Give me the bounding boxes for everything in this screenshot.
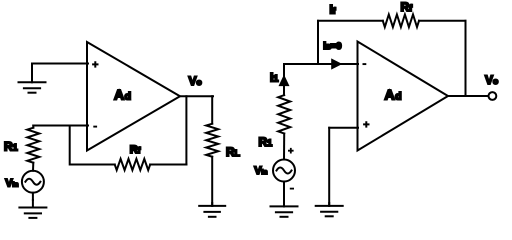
wire: top feedback left segment xyxy=(318,20,383,22)
wire: Rf right lead xyxy=(150,164,186,166)
svg-text:I1: I1 xyxy=(270,71,278,85)
wire: U1 output to RL top xyxy=(180,95,213,97)
wire: R1 top lead xyxy=(32,126,34,128)
wire: Vin bottom to ground G4 xyxy=(283,182,285,207)
svg-text:0: 0 xyxy=(336,41,341,52)
op-amp U2 Ad (right) xyxy=(358,42,449,151)
current arrow IB (points right) xyxy=(331,58,342,69)
svg-text:RL: RL xyxy=(226,145,240,159)
current arrow I1 (points up) xyxy=(279,75,290,87)
wire: top feedback right segment xyxy=(419,20,466,22)
resistor R1 (left) xyxy=(27,128,39,163)
source Vin (right, AC) xyxy=(273,160,295,182)
source Vin (left, AC) xyxy=(22,171,44,193)
svg-text:Vin: Vin xyxy=(5,177,18,189)
svg-text:Vin: Vin xyxy=(254,165,267,177)
wire: input node down to R1 xyxy=(283,64,285,95)
wire: feedback left riser xyxy=(317,21,319,64)
wire: feedback right riser to output node xyxy=(465,21,467,96)
svg-text:R1: R1 xyxy=(4,140,18,154)
wire: RL top lead xyxy=(211,96,213,124)
wire: R1 bottom to Vin (right) xyxy=(283,134,285,160)
wire: inverting input wire xyxy=(284,63,358,65)
ground G4 under Vin (right) xyxy=(271,203,298,217)
resistor RL xyxy=(206,124,218,157)
ground G3 under RL xyxy=(199,203,225,217)
svg-text:Rf: Rf xyxy=(401,0,414,14)
svg-text:Ad: Ad xyxy=(114,86,131,102)
wire: R1 bottom to Vin source xyxy=(32,163,34,171)
wire: feedback drop from output node xyxy=(185,96,187,164)
label + above Vin (right) xyxy=(288,148,294,154)
svg-text:If: If xyxy=(330,3,336,17)
svg-text:Rf: Rf xyxy=(130,144,141,156)
ground G2 under Vin (left) xyxy=(19,200,46,218)
ground G1 at left op-amp + input xyxy=(19,64,46,93)
node Vo terminal (open circle) xyxy=(489,92,497,100)
resistor R1 (right) xyxy=(278,95,290,133)
svg-text:R1: R1 xyxy=(259,135,273,149)
wire: RL bottom to ground G3 xyxy=(211,157,213,206)
wire: + input down to ground G5 xyxy=(328,128,330,206)
wire: Vin bottom to ground G2 xyxy=(32,193,34,200)
label - below Vin (right) xyxy=(290,188,294,190)
svg-text:Vo: Vo xyxy=(485,73,498,87)
resistor Rf (right) xyxy=(383,15,419,28)
op-amp U1 Ad (left) xyxy=(87,42,180,151)
wire: Rf left lead and riser to - input node xyxy=(70,126,115,165)
svg-text:Vo: Vo xyxy=(189,74,202,88)
ground G5 at + input (right) xyxy=(316,203,343,216)
wire: non-inverting input wire xyxy=(329,127,358,129)
resistor Rf (left) xyxy=(115,159,151,170)
wire from ground G1 to + input of U1 xyxy=(32,63,88,65)
svg-text:Ad: Ad xyxy=(385,86,402,102)
wire: - input node to U1 and R1 top xyxy=(33,125,88,127)
wire: U2 output to terminal xyxy=(448,95,489,97)
